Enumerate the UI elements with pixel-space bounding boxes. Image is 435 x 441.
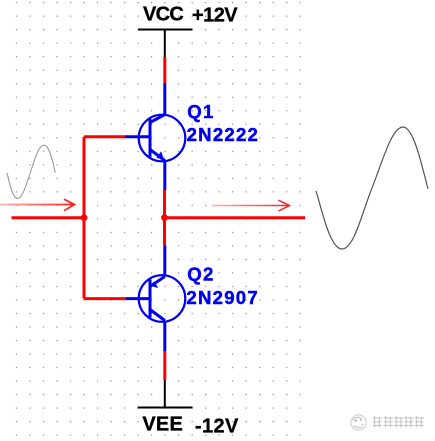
wire to Q1 base <box>84 135 125 138</box>
watermark text 硬件笔记本 <box>373 416 425 428</box>
input signal arrow <box>0 199 75 210</box>
svg-text:2N2907: 2N2907 <box>186 287 257 308</box>
wire to Q2 base <box>84 297 126 300</box>
wire VCC to Q1 collector <box>163 57 166 83</box>
svg-text:Q2: Q2 <box>187 263 213 284</box>
output signal arrow <box>212 200 290 211</box>
VCC power symbol <box>138 30 193 58</box>
input sine waveform <box>7 145 55 198</box>
watermark logo icon <box>351 415 366 430</box>
node output junction <box>161 214 168 221</box>
VEE power symbol <box>138 380 193 408</box>
wire output horizontal <box>165 216 306 219</box>
wire emitters vertical <box>163 190 166 245</box>
svg-text:2N2222: 2N2222 <box>187 124 258 145</box>
wire base vertical <box>83 137 86 299</box>
wire Q2 collector to VEE <box>163 351 166 379</box>
transistor Q2 (PNP 2N2907) <box>126 245 185 351</box>
svg-text:-12V: -12V <box>195 415 239 437</box>
svg-text:VCC: VCC <box>143 4 184 26</box>
svg-text:Q1: Q1 <box>187 101 213 122</box>
transistor Q1 (NPN 2N2222) <box>125 83 185 190</box>
svg-text:+12V: +12V <box>192 5 238 27</box>
output sine waveform <box>316 127 428 249</box>
svg-text:VEE: VEE <box>142 414 182 436</box>
wire input horizontal <box>12 216 85 219</box>
node input junction <box>81 214 88 221</box>
